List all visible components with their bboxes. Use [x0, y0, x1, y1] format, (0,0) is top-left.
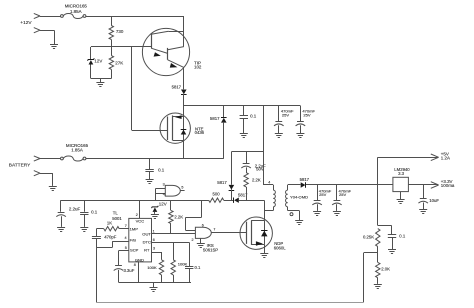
- IC U3 TL5001 box: [129, 218, 152, 262]
- fuse F1 MICRO165 1.85A: [61, 13, 86, 18]
- svg-text:1.85A: 1.85A: [70, 9, 82, 14]
- capacitor C13 label: [124, 268, 135, 273]
- gate U5 pin 2: [192, 238, 194, 242]
- wire drain drop: [264, 200, 273, 210]
- gate U2 AND: [165, 185, 180, 196]
- ground: [50, 45, 58, 49]
- transistor Q2 emitter: [168, 60, 184, 68]
- svg-text:1.85A: 1.85A: [71, 147, 83, 152]
- svg-text:VCC: VCC: [136, 218, 145, 223]
- wire output rail: [184, 105, 301, 107]
- ground: [240, 134, 248, 138]
- ground: [295, 221, 303, 225]
- svg-text:F/B: F/B: [130, 237, 137, 242]
- svg-text:25V: 25V: [319, 192, 327, 197]
- capacitor C1 label: [250, 114, 257, 119]
- svg-text:TL: TL: [113, 210, 119, 215]
- diode D6 5817 label: [217, 180, 227, 185]
- transistor Q4 body: [251, 221, 264, 245]
- regulator U4 label: [394, 167, 410, 176]
- ground: [96, 83, 104, 87]
- transistor Q4 source: [264, 245, 266, 253]
- svg-text:7: 7: [213, 228, 215, 232]
- wire: [90, 65, 92, 79]
- zener D5 12V: [152, 206, 159, 212]
- svg-text:2.0K: 2.0K: [381, 267, 390, 272]
- svg-text:102: 102: [194, 64, 202, 69]
- wire GND stub: [138, 262, 140, 282]
- svg-text:5817: 5817: [210, 116, 220, 121]
- wire SCP pin5: [119, 251, 129, 266]
- wire clamp top: [231, 151, 263, 153]
- output +5V label: [441, 152, 450, 161]
- IC U3 pin names: [130, 218, 152, 262]
- diode D4 5817 label: [238, 193, 248, 198]
- capacitor C6 label: [91, 210, 98, 215]
- wire bottom bus: [119, 282, 192, 287]
- ground: [57, 228, 65, 232]
- wire RT pin3: [152, 252, 162, 260]
- wire VCC stub: [139, 200, 141, 218]
- wire: [111, 47, 113, 56]
- regulator U4 LM2940 box: [393, 177, 409, 191]
- svg-text:50V: 50V: [256, 167, 264, 172]
- capacitor C11 label: [399, 234, 406, 239]
- svg-text:7: 7: [125, 224, 127, 228]
- wire fb return: [96, 247, 363, 302]
- transistor Q1 base bar: [151, 34, 153, 49]
- capacitor C11 0.1: [388, 235, 396, 250]
- wire: [40, 16, 61, 18]
- capacitor C12 470pF: [92, 229, 101, 248]
- gate U2 pin 5: [181, 185, 183, 189]
- svg-text:0.1: 0.1: [91, 210, 98, 215]
- wire: [90, 47, 92, 59]
- diode D4 5817: [234, 198, 239, 203]
- wire emitter down: [183, 67, 185, 89]
- wire +5 rail: [306, 184, 393, 186]
- diode D7 5817 label: [300, 177, 310, 182]
- output arrow +5V: [431, 154, 439, 161]
- ground: [260, 254, 268, 258]
- resistor R1 730: [109, 26, 113, 40]
- diode D3 5817 label: [210, 116, 220, 121]
- svg-text:2: 2: [136, 213, 138, 217]
- svg-text:OUT: OUT: [142, 232, 151, 237]
- resistor R2 27K: [109, 56, 113, 70]
- wire battery rail: [86, 158, 224, 160]
- transistor Q4 source arrow: [256, 241, 263, 246]
- gate U5 label: [203, 243, 218, 253]
- svg-text:470pF: 470pF: [104, 235, 116, 240]
- wire OUT pin1: [152, 233, 196, 235]
- ground: [275, 134, 283, 138]
- wire F/B pin4: [96, 241, 128, 247]
- wire control rail: [61, 200, 209, 202]
- svg-text:4: 4: [163, 192, 165, 196]
- svg-text:1: 1: [153, 229, 155, 233]
- svg-text:+12V: +12V: [20, 20, 32, 26]
- capacitor C13 3.3uF: [114, 266, 124, 283]
- svg-text:4: 4: [125, 236, 127, 240]
- node A base wire: [91, 46, 151, 48]
- gate U5 pin 6: [202, 224, 204, 228]
- capacitor C5 2.2uF: [56, 213, 66, 227]
- svg-text:25V: 25V: [303, 112, 311, 117]
- diode D2 5817 label: [172, 84, 182, 89]
- wire +5V out: [378, 157, 438, 159]
- IC U3 pin numbers: [125, 213, 156, 267]
- wire: [223, 106, 225, 118]
- wire: [246, 152, 248, 163]
- capacitor C5 2.2uF top: [60, 200, 62, 212]
- svg-text:500: 500: [213, 192, 221, 197]
- svg-text:100K: 100K: [178, 262, 188, 267]
- diode D3 5817: [221, 118, 227, 123]
- svg-text:5817: 5817: [217, 180, 227, 185]
- svg-text:6: 6: [153, 238, 155, 242]
- svg-text:3: 3: [153, 246, 155, 250]
- resistor R9 label: [147, 265, 157, 270]
- svg-text:5: 5: [125, 246, 127, 250]
- svg-text:1MP: 1MP: [130, 226, 139, 231]
- svg-text:0.1: 0.1: [158, 167, 165, 172]
- gate U5 AND: [195, 227, 211, 238]
- transistor Q3 body diode: [181, 130, 187, 135]
- svg-text:SCP: SCP: [130, 248, 139, 253]
- ground: [197, 244, 205, 248]
- capacitor C2 470mF 25V: [274, 106, 284, 134]
- svg-text:5817: 5817: [300, 177, 310, 182]
- svg-text:GND: GND: [135, 257, 144, 262]
- svg-text:8: 8: [134, 263, 136, 267]
- connector J4 battery return: [34, 171, 40, 176]
- svg-text:4: 4: [268, 180, 270, 184]
- diode D6 5817: [229, 185, 235, 191]
- resistor R5 label: [363, 235, 374, 240]
- svg-text:3: 3: [163, 183, 165, 187]
- gate U5 pin 7: [213, 228, 215, 232]
- transformer T1 primary: [273, 185, 275, 211]
- svg-text:Y04-OMD: Y04-OMD: [290, 195, 308, 200]
- svg-text:25V: 25V: [282, 112, 290, 117]
- ground: [419, 210, 427, 214]
- wire primary feed: [264, 106, 274, 185]
- svg-text:3.3: 3.3: [398, 171, 405, 176]
- capacitor C14 label: [195, 265, 202, 270]
- capacitor C10 10uF: [418, 185, 428, 210]
- zener D5 label: [159, 202, 167, 207]
- svg-text:2: 2: [192, 238, 194, 242]
- transistor Q3 body: [173, 117, 184, 142]
- transformer T1 label: [290, 195, 308, 200]
- svg-text:12V: 12V: [159, 202, 167, 207]
- transistor Q3 channel bar: [172, 115, 174, 140]
- resistor R9 100K: [159, 260, 163, 283]
- svg-text:0.25K: 0.25K: [363, 235, 374, 240]
- wire: [154, 212, 156, 214]
- svg-text:1K: 1K: [107, 221, 112, 226]
- resistor R3 500: [209, 198, 224, 202]
- wire: [111, 16, 113, 26]
- resistor R8 label: [174, 214, 183, 219]
- wire gate2 loop: [186, 217, 202, 230]
- capacitor C10 label: [429, 198, 439, 203]
- wire fb node: [364, 247, 378, 253]
- wire: [224, 200, 234, 202]
- capacitor C12 label: [104, 235, 116, 240]
- capacitor C5 label: [69, 207, 81, 212]
- resistor R5 0.25K: [376, 229, 380, 247]
- ground: [374, 285, 382, 289]
- gate U2 inputs wire: [156, 188, 166, 200]
- capacitor C7 label: [255, 163, 266, 171]
- capacitor C8 470mF 25V: [312, 185, 322, 211]
- svg-text:0.1: 0.1: [195, 265, 202, 270]
- wire: [246, 187, 248, 200]
- resistor R10 label: [178, 262, 188, 267]
- svg-text:0436: 0436: [195, 130, 205, 135]
- svg-text:2.2K: 2.2K: [174, 214, 183, 219]
- wire +5V tap: [377, 157, 379, 225]
- fuse F2 value label: [66, 143, 89, 153]
- gate U2 pin 4: [163, 192, 165, 196]
- ground: [388, 250, 396, 254]
- wire: [40, 30, 55, 44]
- ground: [80, 228, 88, 232]
- ground: [397, 200, 405, 204]
- input BATTERY label: [9, 162, 31, 168]
- wire: [40, 158, 61, 160]
- svg-text:5001: 5001: [112, 216, 122, 221]
- wire source down: [183, 141, 185, 159]
- svg-text:5061SP: 5061SP: [203, 248, 218, 253]
- transistor Q3 NTE0436 circle: [160, 113, 190, 143]
- capacitor C6 0.1: [80, 200, 88, 227]
- diode D7 5817: [301, 182, 306, 187]
- resistor R2 label: [115, 60, 123, 65]
- wire gate from node A: [132, 47, 168, 131]
- svg-text:25V: 25V: [339, 192, 347, 197]
- transformer T1 secondary: [286, 185, 288, 211]
- resistor R4 label: [252, 178, 261, 183]
- wire: [183, 94, 185, 117]
- ground: [49, 187, 57, 191]
- output +3.3V label: [441, 179, 455, 188]
- resistor R4 2.2K: [244, 173, 248, 187]
- transistor Q4 NDP6060L circle: [240, 217, 272, 249]
- transistor Q4 channel bar: [251, 221, 253, 245]
- svg-text:2.2K: 2.2K: [252, 178, 261, 183]
- fuse F1 value label: [65, 4, 88, 14]
- connector J3 battery: [34, 156, 40, 161]
- svg-text:0.1: 0.1: [250, 114, 257, 119]
- transistor Q4 label: [274, 241, 286, 251]
- resistor R7 label: [107, 221, 112, 226]
- svg-text:1.2A: 1.2A: [441, 156, 450, 161]
- svg-text:5817: 5817: [172, 84, 182, 89]
- transistor Q2 base bar: [167, 48, 169, 60]
- wire top rail: [86, 16, 184, 18]
- wire: [119, 228, 129, 230]
- transformer T1 secondary bottom: [288, 211, 300, 221]
- gate U2 output stub: [180, 190, 184, 192]
- capacitor C9 470mF 25V: [332, 185, 342, 211]
- capacitor C3 label: [302, 109, 315, 118]
- transistor Q3 label: [195, 126, 205, 135]
- resistor R8 2.2K pullup: [169, 200, 173, 234]
- wire: [223, 122, 225, 159]
- transistor Q1 TIP102 circle: [142, 28, 189, 75]
- svg-text:730: 730: [116, 29, 124, 34]
- wire: [40, 173, 53, 186]
- transformer T1 polarity mark: [290, 213, 293, 216]
- svg-text:100K: 100K: [147, 265, 157, 270]
- capacitor C7 2.2uF 50V: [241, 164, 251, 173]
- svg-text:12V: 12V: [94, 59, 102, 64]
- wire: [231, 189, 233, 200]
- resistor R6 2.0K: [376, 253, 380, 284]
- diode D2 5817: [181, 90, 187, 95]
- wire DTC pin6: [152, 242, 190, 244]
- ground: [313, 212, 321, 216]
- transistor Q3 drain arrow: [175, 115, 182, 119]
- transistor Q3 gate bar: [167, 117, 169, 141]
- svg-text:3.3uF: 3.3uF: [124, 268, 135, 273]
- zener D1 12V: [88, 58, 95, 64]
- capacitor C3 470mF 25V: [296, 106, 306, 134]
- wire gate2 drop: [201, 200, 203, 217]
- connector J1 +12V: [34, 13, 40, 18]
- wire gate2 out: [211, 232, 246, 234]
- transistor Q4 drain: [264, 211, 266, 221]
- svg-text:10uF: 10uF: [429, 198, 439, 203]
- capacitor C4 0.1: [145, 159, 153, 180]
- svg-text:5: 5: [181, 185, 183, 189]
- transistor Q4 gate bar: [246, 222, 248, 244]
- wire: [239, 200, 264, 202]
- regulator U4 gnd stub: [400, 192, 402, 200]
- fuse F2 MICRO165 1.85A: [61, 156, 86, 161]
- capacitor C8 label: [319, 188, 332, 197]
- wire: [111, 40, 113, 48]
- transformer T1 secondary top wire: [288, 184, 301, 186]
- svg-text:BATTERY: BATTERY: [9, 162, 31, 168]
- wire comp pin7: [96, 228, 103, 230]
- ground: [146, 180, 154, 184]
- capacitor C2 label: [281, 109, 294, 118]
- wire: [91, 79, 112, 83]
- svg-text:0.1: 0.1: [399, 234, 406, 239]
- svg-text:6060L: 6060L: [274, 246, 286, 251]
- ground: [150, 288, 158, 292]
- svg-text:6: 6: [202, 224, 204, 228]
- svg-text:2.2uF: 2.2uF: [69, 207, 81, 212]
- wire: [111, 69, 113, 78]
- svg-text:DTC: DTC: [143, 240, 151, 245]
- transistor Q1 label TIP 102: [194, 61, 202, 70]
- input +12V label: [20, 20, 32, 26]
- transistor Q2 collector: [168, 31, 184, 50]
- node pin4 label: [268, 180, 270, 184]
- wire +3.3V out: [408, 184, 437, 186]
- wire gate2 gnd: [200, 238, 202, 243]
- transistor Q1 inner emitter: [151, 48, 168, 56]
- svg-text:27K: 27K: [115, 60, 123, 65]
- capacitor C4 label: [158, 167, 165, 172]
- wire fb top: [378, 226, 392, 235]
- wire clamp vert: [231, 152, 233, 185]
- resistor R1 label: [116, 29, 124, 34]
- transistor Q4 body diode: [261, 231, 267, 237]
- resistor R6 label: [381, 267, 390, 272]
- capacitor C14 0.1: [185, 242, 193, 282]
- ground: [296, 134, 304, 138]
- ground: [151, 215, 159, 219]
- ground: [333, 212, 341, 216]
- output arrow +3.3V: [431, 182, 439, 189]
- gate U2 pin 3: [163, 183, 165, 187]
- svg-text:100ma: 100ma: [441, 183, 455, 188]
- resistor R10 100K: [171, 242, 175, 282]
- svg-text:RT: RT: [144, 248, 150, 253]
- capacitor C9 label: [339, 188, 352, 197]
- capacitor C1 0.1: [240, 106, 248, 134]
- connector J2 +12V return: [34, 28, 40, 33]
- resistor R7 1K: [104, 227, 119, 231]
- IC U3 part label: [112, 210, 122, 221]
- resistor R3 label: [213, 192, 221, 197]
- transistor Q1 collector lead: [151, 16, 184, 34]
- zener D1 label: [94, 59, 102, 64]
